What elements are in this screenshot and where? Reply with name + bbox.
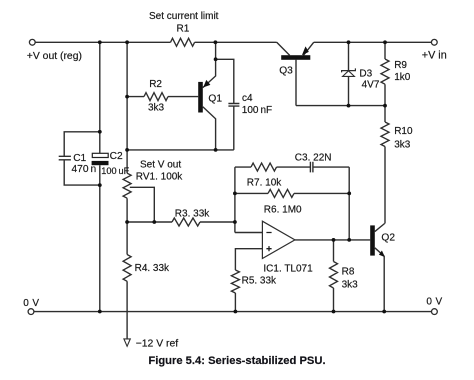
svg-text:C3. 22N: C3. 22N <box>295 152 332 163</box>
svg-text:R8: R8 <box>342 267 355 278</box>
svg-text:Q2: Q2 <box>381 233 395 244</box>
svg-text:R6. 1M0: R6. 1M0 <box>264 204 302 215</box>
svg-text:0 V: 0 V <box>426 296 442 307</box>
svg-text:R3. 33k: R3. 33k <box>175 209 210 220</box>
svg-text:R10: R10 <box>394 126 413 137</box>
svg-text:3k3: 3k3 <box>342 280 359 291</box>
svg-text:R5. 33k: R5. 33k <box>242 276 277 287</box>
svg-text:C1: C1 <box>73 153 86 164</box>
svg-text:R1: R1 <box>177 23 190 34</box>
svg-text:Set current limit: Set current limit <box>149 11 219 22</box>
svg-text:0 V: 0 V <box>23 298 39 309</box>
svg-text:c4: c4 <box>242 93 253 104</box>
svg-text:RV1. 100k: RV1. 100k <box>136 171 184 182</box>
svg-text:Q3: Q3 <box>279 65 293 76</box>
svg-text:Figure 5.4: Series-stabilized: Figure 5.4: Series-stabilized PSU. <box>148 355 325 367</box>
svg-text:100 uF: 100 uF <box>101 166 129 176</box>
svg-text:3k3: 3k3 <box>394 140 411 151</box>
svg-text:1k0: 1k0 <box>394 72 411 83</box>
svg-text:C2: C2 <box>110 151 123 162</box>
svg-text:Set V out: Set V out <box>140 159 181 170</box>
svg-text:470 n: 470 n <box>72 164 97 175</box>
svg-text:IC1. TL071: IC1. TL071 <box>263 264 313 275</box>
svg-text:R2: R2 <box>149 79 162 90</box>
svg-text:3k3: 3k3 <box>148 102 165 113</box>
svg-text:Q1: Q1 <box>208 93 222 104</box>
svg-text:R4. 33k: R4. 33k <box>135 263 170 274</box>
svg-text:R9: R9 <box>394 60 407 71</box>
svg-text:−12 V ref: −12 V ref <box>136 338 179 349</box>
svg-text:+V in: +V in <box>422 49 447 61</box>
svg-text:+V out (reg): +V out (reg) <box>27 51 82 62</box>
svg-text:4V7: 4V7 <box>362 80 380 91</box>
svg-text:100 nF: 100 nF <box>242 105 272 116</box>
svg-text:R7. 10k: R7. 10k <box>247 177 282 188</box>
svg-text:D3: D3 <box>359 69 372 80</box>
